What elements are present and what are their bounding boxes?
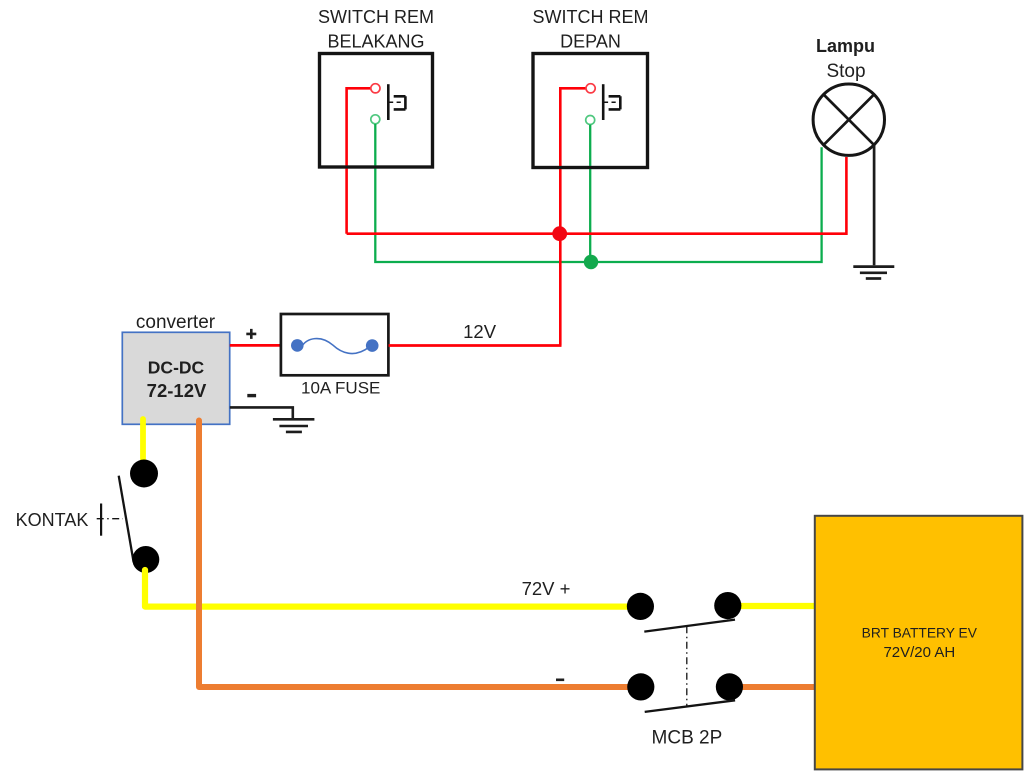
svg-text:72-12V: 72-12V <box>147 380 207 401</box>
switch box SW2 (front brake switch) <box>533 54 648 168</box>
svg-text:SWITCH REM: SWITCH REM <box>533 7 649 27</box>
label plus <box>246 329 256 339</box>
svg-text:Stop: Stop <box>826 61 865 82</box>
svg-text:DEPAN: DEPAN <box>560 32 621 52</box>
terminal red SW2 <box>586 84 595 93</box>
KONTAK dash link <box>97 518 123 520</box>
fuse F1 box <box>281 314 389 375</box>
MCB pole2 terminal left <box>627 673 654 700</box>
label minus near orange <box>556 678 564 681</box>
converter U1 DC-DC 72-12V <box>122 332 229 424</box>
switch box SW1 border over wires <box>320 54 433 168</box>
MCB pole1 lever <box>644 620 735 632</box>
wire red converter to fuse <box>230 344 281 347</box>
fuse element blue <box>291 339 379 354</box>
junction green node <box>584 255 598 269</box>
MCB pole2 lever <box>645 700 735 712</box>
wire black lamp to ground <box>873 146 876 265</box>
label SWITCH REM BELAKANG <box>318 7 434 52</box>
KONTAK lever <box>119 476 134 562</box>
label Lampu Stop <box>816 36 875 82</box>
svg-text:Lampu: Lampu <box>816 36 875 56</box>
MCB pole1 terminal left <box>627 593 654 620</box>
lamp L1 (stop lamp) <box>813 84 884 155</box>
wire orange MCB to battery <box>731 684 815 690</box>
wire orange converter to MCB <box>199 421 640 688</box>
svg-text:10A FUSE: 10A FUSE <box>301 379 380 398</box>
ground lamp <box>853 267 894 279</box>
push-button symbol SW1 <box>388 84 405 120</box>
wire yellow KONTAK to MCB <box>145 570 640 607</box>
KONTAK key bar <box>100 504 102 536</box>
MCB tie bar dashed <box>686 626 688 706</box>
svg-text:DC-DC: DC-DC <box>148 358 205 378</box>
svg-text:MCB 2P: MCB 2P <box>652 728 723 749</box>
wire red SW1 drop to bus <box>347 88 371 233</box>
svg-text:BELAKANG: BELAKANG <box>327 32 424 52</box>
svg-text:72V +: 72V + <box>522 578 571 599</box>
push-button symbol SW2 <box>603 84 620 120</box>
KONTAK terminal bottom <box>132 546 159 573</box>
svg-text:KONTAK: KONTAK <box>16 510 89 530</box>
wire red SW2 drop through junction to 12V line <box>560 88 586 345</box>
wire red bus to lamp <box>347 157 847 234</box>
wire yellow MCB to battery <box>730 603 815 609</box>
wire yellow converter to KONTAK <box>140 419 146 463</box>
battery BT1 BRT BATTERY EV <box>815 516 1023 770</box>
MCB pole1 terminal right <box>714 592 741 619</box>
svg-text:BRT BATTERY EV: BRT BATTERY EV <box>862 626 978 641</box>
ground converter <box>273 419 315 432</box>
svg-text:SWITCH REM: SWITCH REM <box>318 7 434 27</box>
label minus <box>247 394 256 397</box>
wire green SW1 drop, green bus, rise to lamp <box>375 124 821 262</box>
terminal green SW2 <box>586 116 595 125</box>
svg-text:12V: 12V <box>463 321 497 342</box>
wire black converter minus to ground <box>230 407 293 418</box>
KONTAK terminal top <box>130 460 158 488</box>
switch box SW2 border over wires <box>533 54 648 168</box>
switch box SW1 (rear brake switch) <box>320 54 433 168</box>
terminal green SW1 <box>371 115 380 124</box>
terminal red SW1 <box>371 84 380 93</box>
svg-text:72V/20 AH: 72V/20 AH <box>883 644 955 661</box>
MCB pole2 terminal right <box>716 673 743 700</box>
wire red fuse to junction (12V) <box>389 344 562 347</box>
wire green SW2 drop to green bus <box>589 125 591 262</box>
junction red node <box>552 226 567 241</box>
svg-text:converter: converter <box>136 312 216 333</box>
label SWITCH REM DEPAN <box>533 7 649 52</box>
